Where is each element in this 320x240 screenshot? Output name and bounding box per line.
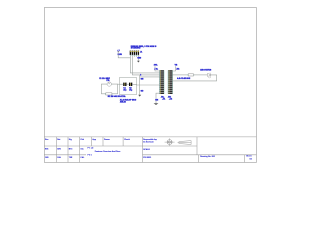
crystal X1 (107, 82, 112, 86)
wire J1 pin3 stub (133, 55, 135, 57)
ground (137, 61, 140, 63)
svg-text:GN: GN (155, 100, 158, 102)
svg-text:GN: GN (141, 79, 144, 81)
svg-text:J1: J1 (140, 52, 143, 54)
label X1 (99, 78, 110, 82)
svg-text:GD: GD (141, 90, 144, 92)
wire LED loop (173, 75, 217, 81)
svg-text:Sig: Sig (69, 139, 73, 141)
title block texts (45, 138, 252, 160)
LED D1 (208, 73, 211, 78)
wire J1 pin4 stub (135, 55, 137, 57)
wire J1 pin1 down (130, 55, 159, 73)
svg-text:Chk: Chk (80, 139, 85, 141)
connector JP-A2 (12-pin header, right column) (168, 70, 173, 94)
svg-text:-A2: -A2 (169, 98, 173, 101)
label JP-A2 (168, 97, 173, 101)
wire box to left header (132, 83, 159, 86)
third-angle projection symbol (165, 138, 192, 146)
svg-text:B01: B01 (45, 148, 48, 150)
svg-text:Dat: Dat (57, 138, 60, 141)
svg-text:ABLS2: ABLS2 (120, 100, 126, 103)
svg-text:A.B.CD.EF.GHI: A.B.CD.EF.GHI (177, 77, 191, 80)
wire crystal loop left (101, 84, 107, 94)
capacitor C2 (129, 83, 133, 92)
label crystal circuit description (120, 98, 137, 103)
resistor R2 (187, 74, 194, 76)
ground (154, 103, 159, 105)
svg-text:1/1: 1/1 (249, 158, 252, 160)
svg-text:P 1 w2: P 1 w2 (88, 147, 94, 149)
wire right header pin1 to power flag (173, 66, 176, 71)
label J1 text (131, 45, 157, 54)
svg-text:CAL: CAL (80, 156, 85, 159)
net flag RUN (117, 49, 122, 56)
wire left header bottom pin to ground (156, 93, 160, 103)
svg-text:J 2a: J 2a (154, 69, 159, 71)
resistor R1 (105, 93, 113, 95)
svg-text:P/N 0001: P/N 0001 (143, 157, 151, 159)
svg-text:10a: 10a (80, 148, 84, 150)
wire GND rail near box (139, 75, 141, 95)
svg-text:Drawing No. 001: Drawing No. 001 (200, 156, 215, 158)
svg-text:Do Not Scale: Do Not Scale (143, 141, 153, 144)
svg-text:27p: 27p (129, 90, 133, 92)
wire to left header pin4 (140, 76, 160, 78)
svg-text:J2b: J2b (176, 69, 180, 71)
svg-text:Check: Check (124, 139, 131, 141)
svg-text:3V3.: 3V3. (154, 65, 158, 67)
svg-text:Rev: Rev (45, 139, 49, 141)
svg-text:Sheet: Sheet (246, 155, 252, 158)
wire left header pin1 to power flag (155, 66, 160, 71)
svg-text:27p: 27p (123, 90, 127, 92)
svg-text:70R: 70R (69, 157, 73, 159)
svg-text:B73: B73 (69, 148, 72, 150)
svg-text:8: 8 (140, 75, 141, 77)
svg-text:CAL: CAL (57, 156, 62, 159)
svg-text:1N0: 1N0 (45, 157, 48, 159)
wire J1 pin5 to ground (137, 55, 139, 61)
svg-text:↑ 1: ↑ 1 (117, 49, 120, 52)
wire between caps (126, 83, 129, 85)
connector JP-A1 (12-pin header, left column) (159, 70, 164, 94)
capacitor C1 (123, 83, 127, 92)
svg-text:LED STATUS: LED STATUS (200, 68, 212, 71)
svg-text:R1 1M 0402 5% XTAL: R1 1M 0402 5% XTAL (108, 95, 127, 98)
svg-text:F 0 1: F 0 1 (88, 154, 92, 156)
svg-text:App: App (92, 138, 97, 141)
connector J1 (5-pin debug header) (130, 51, 140, 56)
svg-text:Features Overview And Dem: Features Overview And Dem (95, 150, 121, 153)
wire right header pin3 to resistor R2 (173, 74, 189, 76)
svg-text:SCALE: SCALE (143, 148, 150, 151)
wire resistor to LED (194, 74, 208, 76)
wire RUN to J1 pin1 (118, 52, 130, 58)
svg-text:GND: GND (137, 58, 142, 60)
svg-text:STANDRD: STANDRD (131, 46, 141, 49)
wire into box (118, 83, 124, 85)
ground (138, 95, 141, 97)
svg-text:02%: 02% (57, 148, 61, 150)
wire J1 pin2 down (132, 55, 159, 75)
sheet border frame (44, 8, 256, 163)
svg-text:Drawn: Drawn (104, 139, 111, 141)
label JP-A1 (161, 97, 166, 101)
svg-text:VB: VB (175, 65, 178, 67)
wire crystal loop right (112, 84, 118, 94)
title block grid (44, 137, 256, 163)
shield box around load capacitors (120, 78, 137, 95)
svg-text:XTL: XTL (106, 80, 110, 82)
svg-text:-A1: -A1 (162, 98, 166, 101)
